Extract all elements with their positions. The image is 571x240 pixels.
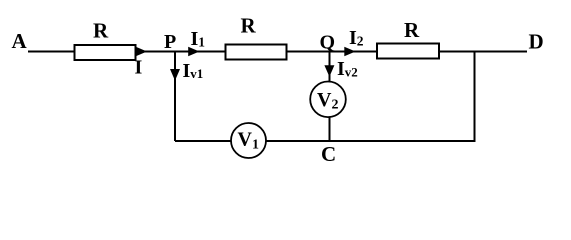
svg-text:D: D	[529, 30, 544, 54]
current arrow I	[136, 47, 147, 57]
svg-text:A: A	[12, 29, 28, 53]
svg-text:R: R	[93, 19, 109, 43]
wire R3 to D	[439, 51, 527, 53]
voltmeter V1	[231, 123, 266, 158]
resistor R1	[75, 45, 136, 60]
current arrow I2	[344, 47, 355, 57]
svg-text:Iv2: Iv2	[337, 58, 358, 80]
bottom wire	[175, 140, 475, 142]
svg-text:R: R	[241, 14, 257, 38]
current arrow Iv1	[170, 69, 180, 81]
resistor R2	[226, 45, 287, 60]
current arrow I1	[188, 47, 199, 57]
current arrow Iv2	[324, 65, 334, 76]
wire V2 to bottom node C	[329, 115, 331, 141]
svg-text:I: I	[135, 57, 143, 79]
svg-text:Q: Q	[320, 32, 336, 54]
wire A to R1	[28, 51, 76, 53]
resistor R3	[377, 44, 439, 59]
wire right branch vertical	[474, 52, 476, 143]
wire R2 to R3	[287, 51, 379, 53]
wire R1 to R2	[135, 51, 226, 53]
svg-text:I1: I1	[191, 28, 206, 50]
wire Q branch vertical	[329, 52, 331, 84]
svg-text:R: R	[404, 18, 420, 42]
svg-text:C: C	[321, 142, 336, 166]
svg-text:P: P	[164, 31, 176, 53]
wire P branch vertical	[174, 52, 176, 142]
svg-text:I2: I2	[349, 27, 364, 49]
svg-text:Iv1: Iv1	[183, 60, 204, 82]
voltmeter V2	[310, 82, 346, 118]
